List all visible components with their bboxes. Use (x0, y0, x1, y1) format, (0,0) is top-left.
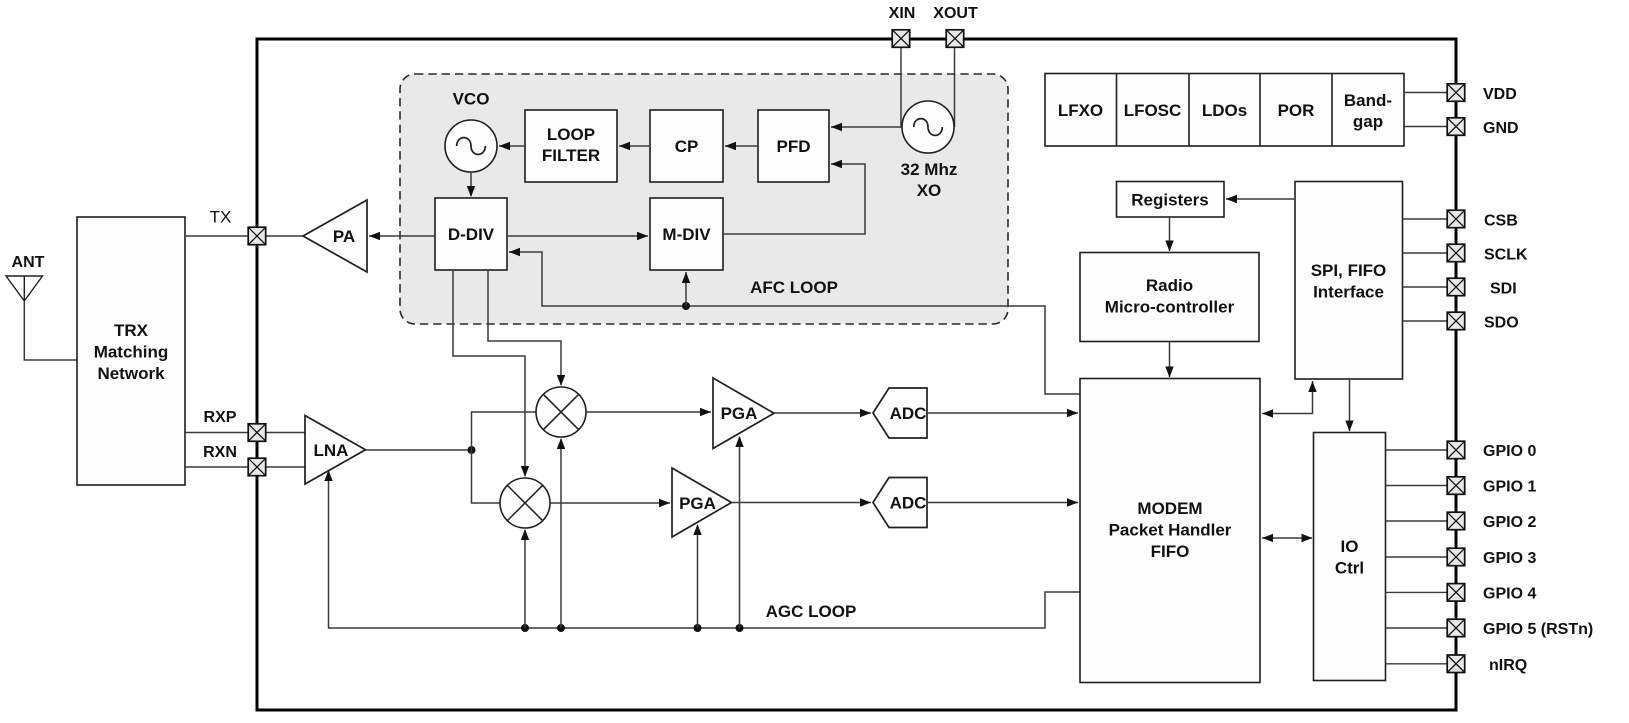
pin SCLK (1447, 244, 1465, 262)
svg-text:PFD: PFD (777, 137, 811, 156)
block MODEM Packet Handler FIFO (1080, 379, 1260, 683)
svg-text:VDD: VDD (1483, 86, 1517, 103)
junction AGC mixer2 (521, 624, 529, 632)
wire IO Ctrl to GPIO 2 pin (1386, 520, 1449, 522)
wire AGC loop main (329, 471, 1081, 628)
pin GND (1447, 118, 1465, 136)
pin nIRQ (1447, 655, 1465, 673)
wire IO Ctrl to GPIO 4 pin (1386, 591, 1449, 593)
arrowhead into M-DIV bottom (682, 272, 690, 283)
wire RXP pin to LNA (265, 432, 306, 434)
pin GPIO 0 (1447, 441, 1465, 459)
arrowhead into IO Ctrl top (1345, 421, 1353, 432)
arrowhead into PGA2 (659, 499, 670, 507)
wire AFC feedback from MODEM (686, 306, 1080, 394)
wire IO Ctrl to GPIO 3 pin (1386, 556, 1449, 558)
svg-text:GPIO 4: GPIO 4 (1483, 585, 1536, 602)
junction AGC mixer1 (557, 624, 565, 632)
svg-text:D-DIV: D-DIV (448, 225, 495, 244)
svg-text:SDO: SDO (1484, 315, 1519, 332)
wire bandgap to VDD (1404, 92, 1448, 94)
pin VDD (1447, 84, 1465, 102)
arrowhead into mixer2 top (521, 466, 529, 477)
wire PGA1 to ADC1 (774, 412, 871, 414)
svg-text:VCO: VCO (453, 90, 490, 109)
svg-text:ANT: ANT (12, 254, 45, 271)
wire RXN pin to LNA (265, 466, 306, 468)
wire IO Ctrl to GPIO 0 pin (1386, 449, 1449, 451)
svg-text:GPIO 1: GPIO 1 (1483, 479, 1536, 496)
block M-DIV (650, 198, 723, 270)
wire VCO to D-DIV (470, 172, 472, 196)
block CP (650, 110, 723, 182)
svg-text:nIRQ: nIRQ (1489, 657, 1527, 674)
arrowhead into PFD from XO (831, 123, 842, 131)
wire PGA2 to ADC2 (732, 502, 872, 504)
svg-text:XOUT: XOUT (933, 5, 978, 22)
block Radio Micro-controller (1080, 253, 1259, 342)
divider POR/Band-gap (1331, 74, 1333, 147)
block D-DIV (435, 198, 507, 270)
svg-text:LFXO: LFXO (1058, 101, 1103, 120)
arrowhead into PA (369, 232, 380, 240)
svg-text:PA: PA (333, 227, 355, 246)
wire antenna to TRX (24, 301, 77, 360)
svg-text:TX: TX (210, 208, 232, 227)
wire MODEM-SPI link (1262, 381, 1313, 414)
arrowhead into M-DIV (637, 232, 648, 240)
wire D-DIV to mixer1 LO (488, 270, 561, 385)
arrowhead into MODEM right lower (1262, 534, 1273, 542)
wire AGC to PGA2 bottom (697, 525, 699, 628)
svg-text:ADC: ADC (890, 494, 927, 513)
wire AGC to PGA1 bottom (739, 437, 741, 628)
pin XIN (892, 30, 910, 48)
wire XOUT to XO (954, 47, 956, 127)
svg-text:AGC LOOP: AGC LOOP (766, 602, 857, 621)
wire SPI to CSB pin (1403, 218, 1449, 220)
divider LDOs/POR (1259, 74, 1261, 147)
svg-text:PGA: PGA (679, 494, 716, 513)
block PFD (758, 110, 829, 182)
svg-text:GPIO 0: GPIO 0 (1483, 443, 1536, 460)
svg-text:PGA: PGA (721, 404, 758, 423)
converter ADC2 (873, 478, 927, 528)
wire LOOP FILTER to VCO (499, 145, 525, 147)
wire AFC feedback to D-DIV (509, 252, 686, 306)
wire XIN to XO (900, 47, 902, 127)
wire ADC2 to MODEM (927, 502, 1078, 504)
arrowhead into MCU (1165, 241, 1173, 252)
block row LFXO..Band-gap (1045, 74, 1404, 147)
wire ADC1 to MODEM (927, 412, 1078, 414)
wire SPI to IO Ctrl (1349, 379, 1351, 431)
arrowhead into MODEM top (1165, 367, 1173, 378)
arrowhead into LOOP FILTER (619, 142, 630, 150)
pin GPIO 3 (1447, 548, 1465, 566)
svg-text:CSB: CSB (1484, 213, 1518, 230)
arrowhead into mixer1 top (557, 375, 565, 386)
wire SPI to SDI pin (1403, 286, 1449, 288)
wire bandgap to GND (1404, 126, 1448, 128)
block IO Ctrl (1314, 433, 1386, 681)
pin SDI (1447, 278, 1465, 296)
block SPI FIFO Interface (1295, 182, 1403, 380)
svg-text:LFOSC: LFOSC (1124, 101, 1182, 120)
wire MODEM-IO link (1262, 537, 1312, 539)
svg-text:RXP: RXP (204, 409, 237, 426)
svg-text:GPIO 2: GPIO 2 (1483, 514, 1536, 531)
arrowhead into PGA1 bottom (735, 436, 743, 447)
wire split to mixer2 (472, 450, 501, 503)
svg-text:LNA: LNA (314, 441, 349, 460)
amplifier PGA2 (672, 468, 732, 537)
wire M-DIV to PFD feedback (723, 164, 865, 234)
arrowhead into mixer1 bottom (557, 438, 565, 449)
arrowhead into D-DIV right (509, 248, 520, 256)
converter ADC1 (873, 388, 927, 438)
wire CP to LOOP FILTER (619, 145, 650, 147)
arrowhead into PFD lower input (831, 160, 842, 168)
wire AGC to mixer1 bottom (560, 439, 562, 628)
svg-text:XIN: XIN (889, 5, 916, 22)
wire AGC to mixer2 bottom (524, 530, 526, 628)
svg-text:GPIO 5 (RSTn): GPIO 5 (RSTn) (1483, 621, 1593, 638)
arrowhead into ADC2 (860, 498, 871, 506)
svg-text:GND: GND (1483, 120, 1519, 137)
wire D-DIV to PA (369, 235, 435, 237)
svg-text:CP: CP (675, 137, 699, 156)
arrowhead into MODEM from ADC1 (1067, 409, 1078, 417)
svg-text:ADC: ADC (890, 404, 927, 423)
wire mixer2 to PGA2 (550, 502, 670, 504)
arrowhead into PGA1 (700, 408, 711, 416)
arrowhead into SPI bottom (1308, 381, 1316, 392)
wire XO to PFD (831, 126, 902, 128)
wire TRX to RXP pin (185, 432, 249, 434)
wire mixer1 to PGA1 (586, 411, 711, 413)
arrowhead into CP (725, 142, 736, 150)
block LOOP FILTER (525, 110, 617, 182)
pin TX (248, 227, 266, 245)
wire TRX to TX pin (185, 235, 249, 237)
wire IO Ctrl to GPIO 1 pin (1386, 485, 1449, 487)
divider LFOSC/LDOs (1188, 74, 1190, 147)
arrowhead into MODEM from ADC2 (1067, 498, 1078, 506)
wire LNA output (366, 449, 472, 451)
svg-text:SDI: SDI (1490, 281, 1517, 298)
wire Registers to MCU (1169, 217, 1171, 251)
AFC loop region (dashed) (400, 74, 1008, 324)
mixer Q (bottom) (500, 478, 550, 528)
junction AGC PGA2 (694, 624, 702, 632)
svg-text:LDOs: LDOs (1202, 101, 1247, 120)
wire SPI to SDO pin (1403, 320, 1449, 322)
arrowhead into ADC1 (860, 409, 871, 417)
pin GPIO 2 (1447, 512, 1465, 530)
svg-text:M-DIV: M-DIV (662, 225, 711, 244)
chip outline (257, 39, 1456, 710)
wire D-DIV to mixer2 LO (453, 270, 525, 476)
pin RXP (248, 424, 266, 442)
wire IO Ctrl to nIRQ pin (1386, 663, 1449, 665)
pin XOUT (946, 30, 964, 48)
svg-text:RXN: RXN (203, 444, 237, 461)
mixer I (top) (536, 387, 586, 437)
pin CSB (1447, 210, 1465, 228)
arrowhead into PGA2 bottom (693, 524, 701, 535)
wire IO Ctrl to GPIO 5 (RSTn) pin (1386, 627, 1449, 629)
arrowhead into VCO (499, 142, 510, 150)
junction on AFC feedback (682, 302, 690, 310)
svg-text:POR: POR (1278, 101, 1315, 120)
divider LFXO/LFOSC (1116, 74, 1118, 147)
wire junction to M-DIV bottom (685, 272, 687, 306)
wire TRX to RXN pin (185, 466, 249, 468)
arrowhead into IO left (1302, 534, 1313, 542)
wire SPI to Registers (1226, 198, 1295, 200)
wire SPI to SCLK pin (1403, 252, 1449, 254)
pin SDO (1447, 312, 1465, 330)
amplifier PA (303, 200, 367, 272)
svg-text:AFC LOOP: AFC LOOP (750, 278, 838, 297)
svg-text:Registers: Registers (1131, 191, 1208, 210)
wire TX pin to PA (265, 235, 304, 237)
amplifier PGA1 (713, 378, 774, 449)
pin GPIO 4 (1447, 584, 1465, 602)
oscillator VCO (445, 120, 497, 172)
arrowhead into D-DIV top (467, 186, 475, 197)
TRX matching network (77, 217, 185, 485)
junction LNA output (468, 446, 476, 454)
svg-text:GPIO 3: GPIO 3 (1483, 550, 1536, 567)
block Registers (1117, 182, 1225, 218)
arrowhead into mixer2 bottom (521, 529, 529, 540)
arrowhead into MODEM right (1262, 409, 1273, 417)
oscillator 32MHz XO (902, 101, 954, 153)
amplifier LNA (305, 416, 366, 485)
arrowhead into LNA feedback (324, 470, 332, 481)
wire split to mixer1 (472, 412, 537, 450)
pin GPIO 5 (RSTn) (1447, 619, 1465, 637)
svg-text:SCLK: SCLK (1484, 247, 1528, 264)
wire PFD to CP (725, 145, 758, 147)
pin GPIO 1 (1447, 477, 1465, 495)
arrowhead into Registers (1226, 195, 1237, 203)
wire D-DIV to M-DIV (507, 235, 648, 237)
wire MCU to MODEM (1169, 342, 1171, 378)
antenna ANT (6, 276, 43, 301)
pin RXN (248, 458, 266, 476)
junction AGC PGA1 (736, 624, 744, 632)
